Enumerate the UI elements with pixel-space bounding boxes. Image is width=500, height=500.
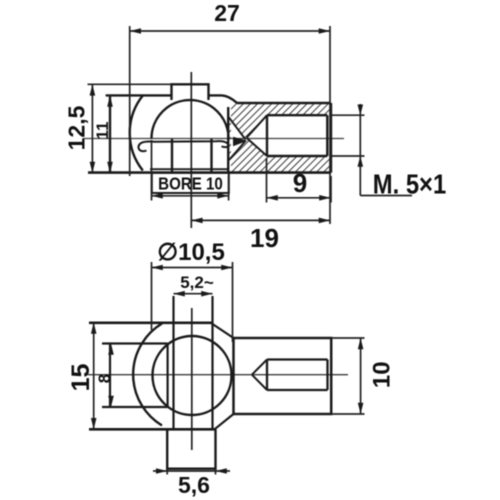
housing top edge: [89, 321, 212, 324]
svg-text:M. 5×1: M. 5×1: [373, 168, 446, 200]
neck curve bottom: [215, 414, 234, 429]
dimension 9: [267, 158, 332, 203]
dimension 5,2: [174, 293, 213, 295]
housing bottom edge: [89, 428, 216, 431]
svg-text:12,5: 12,5: [64, 105, 90, 150]
BORE 10 box: [152, 173, 229, 193]
svg-text:∅10,5: ∅10,5: [157, 239, 225, 266]
ball upper arc: [152, 100, 229, 138]
ball pocket cone lower: [229, 141, 246, 160]
drill cone (bottom view): [252, 360, 267, 391]
dimension 11 (on housing left edge): [109, 95, 111, 173]
dimension 10: [331, 338, 364, 414]
svg-text:5,6: 5,6: [178, 472, 210, 498]
neck curve top: [211, 323, 234, 338]
svg-text:27: 27: [214, 0, 240, 26]
slot wall left: [172, 296, 174, 429]
drill cone: [247, 115, 267, 156]
dimension diameter 10,5: [152, 262, 233, 342]
svg-text:5,2~: 5,2~: [180, 273, 214, 292]
sleeve right end: [330, 103, 332, 173]
bottom boss: [167, 429, 215, 468]
housing right edge: [227, 107, 229, 173]
svg-text:11: 11: [93, 122, 112, 140]
dimension 15: [93, 323, 95, 430]
pocket dark wedge: [233, 137, 248, 146]
svg-text:BORE 10: BORE 10: [158, 173, 223, 194]
lower slot wall left: [171, 139, 173, 173]
thread callout M.5x1 leader: [332, 104, 412, 196]
dimension 27: [130, 26, 330, 224]
housing inner bottom line: [150, 168, 228, 170]
dimension 19: [191, 219, 330, 221]
dimension 12,5: [88, 84, 172, 173]
svg-text:10: 10: [369, 361, 396, 388]
dimension bore width (under box): [152, 140, 229, 201]
hatched section of threaded sleeve: [228, 103, 331, 172]
svg-text:19: 19: [250, 223, 279, 253]
ball pocket cone upper: [229, 118, 246, 140]
housing top edge: [106, 94, 222, 96]
threaded hole outline: [267, 115, 327, 156]
svg-text:8: 8: [95, 374, 114, 383]
wire: vertical centerline top view: [190, 72, 192, 228]
wire: horizontal centerline top view: [84, 138, 344, 140]
wire: vertical centerline bottom view: [191, 308, 193, 450]
boss on top of housing: [172, 84, 209, 100]
wire: horizontal centerline bottom view: [88, 374, 348, 376]
cup arc: [133, 324, 162, 426]
spring clip: [138, 141, 228, 151]
lower slot wall right: [210, 139, 212, 173]
threaded hole outline (bottom view): [267, 360, 328, 391]
sleeve top edge: [237, 102, 331, 105]
inner rectangle (cup seen from below): [102, 344, 168, 408]
svg-text:9: 9: [293, 168, 307, 198]
sleeve outline: [234, 338, 332, 414]
dimension 5,6: [153, 469, 230, 475]
dimension 8: [108, 344, 114, 408]
cup arc (retainer shell): [130, 96, 143, 171]
slot wall right: [211, 296, 213, 429]
svg-text:15: 15: [67, 364, 95, 392]
housing / sleeve bottom edge: [88, 171, 331, 174]
ball circle: [153, 336, 232, 415]
housing right shoulder chamfer: [222, 95, 237, 103]
